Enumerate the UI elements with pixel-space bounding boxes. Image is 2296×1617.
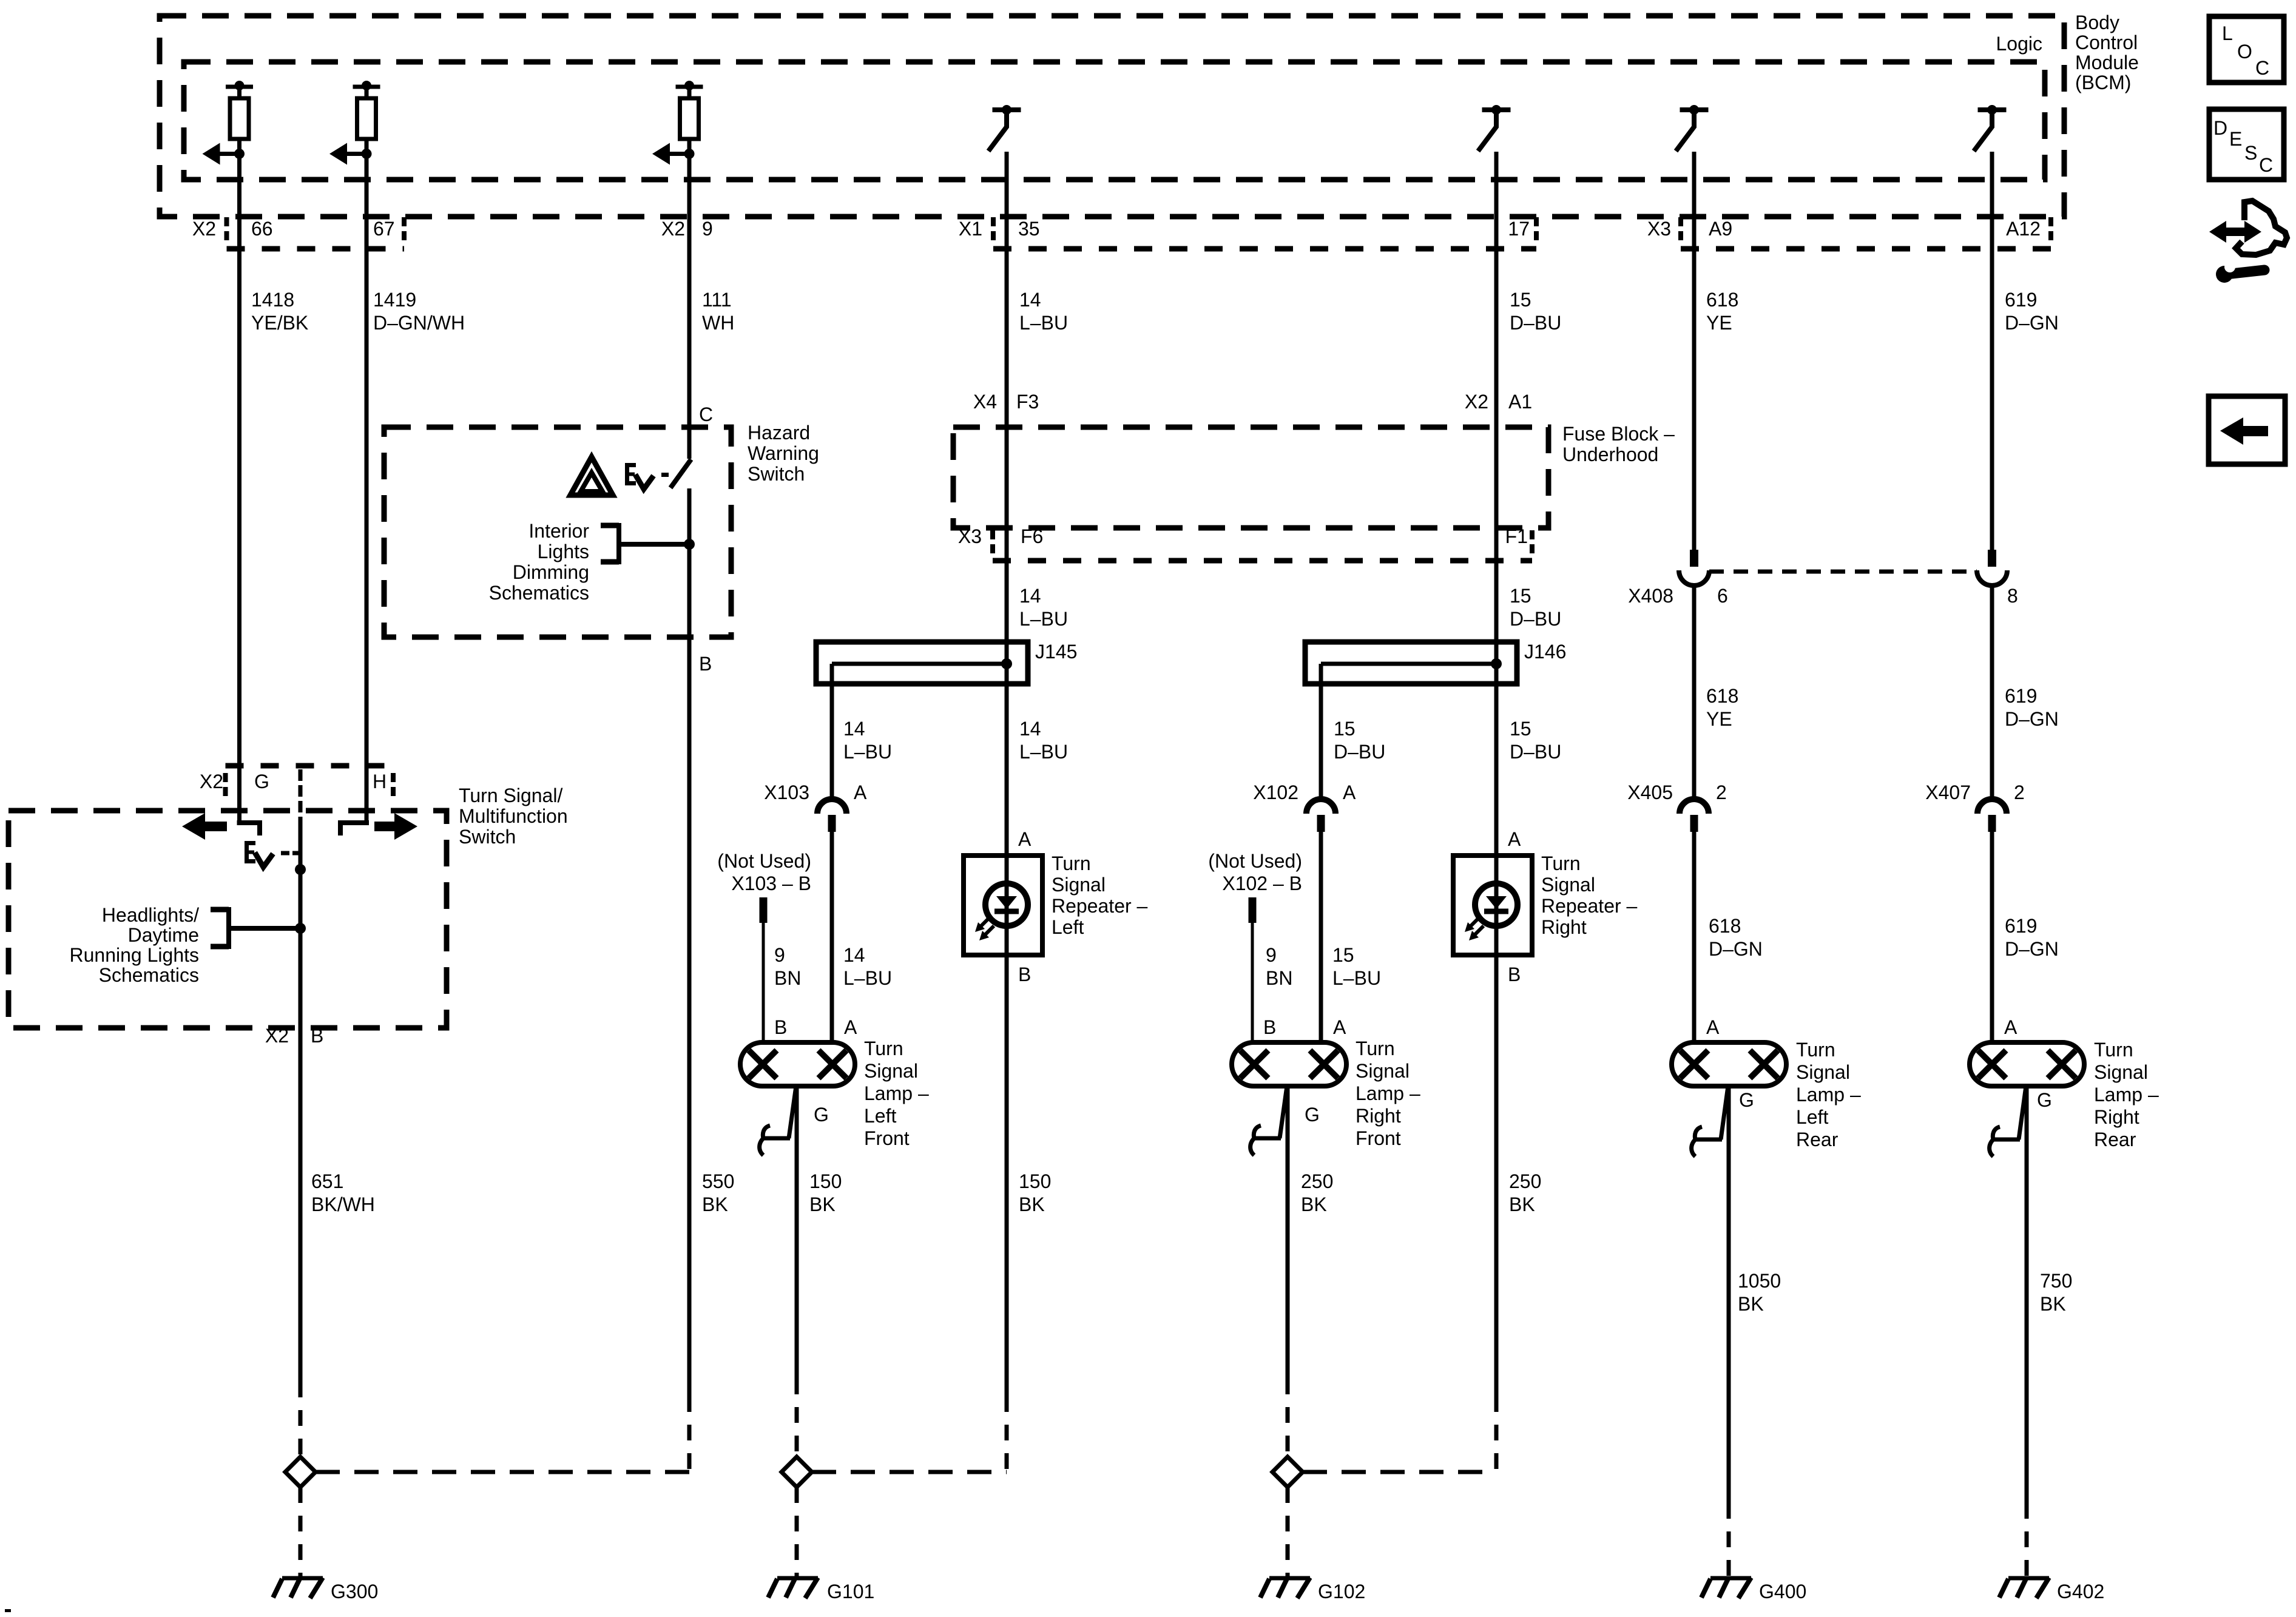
svg-text:8: 8 [2007, 585, 2018, 607]
svg-text:A: A [1018, 828, 1032, 850]
svg-text:Repeater –: Repeater – [1052, 895, 1148, 917]
svg-text:550: 550 [702, 1170, 734, 1192]
svg-text:6: 6 [1717, 585, 1728, 607]
svg-text:750: 750 [2040, 1270, 2072, 1292]
svg-text:D–GN: D–GN [2005, 708, 2059, 730]
svg-text:Lamp –: Lamp – [1356, 1082, 1420, 1104]
svg-text:BK: BK [1301, 1193, 1327, 1215]
svg-text:B: B [311, 1025, 323, 1047]
svg-text:S: S [2244, 142, 2257, 164]
svg-text:2: 2 [1716, 781, 1727, 803]
svg-text:Lamp –: Lamp – [2094, 1084, 2159, 1106]
svg-text:150: 150 [809, 1170, 842, 1192]
svg-text:A: A [844, 1016, 857, 1038]
svg-text:X103: X103 [764, 781, 809, 803]
svg-text:D: D [2213, 117, 2227, 139]
svg-text:X2: X2 [265, 1025, 289, 1047]
svg-text:Front: Front [864, 1127, 910, 1149]
svg-text:D–GN/WH: D–GN/WH [373, 312, 465, 334]
svg-text:B: B [1263, 1016, 1276, 1038]
svg-text:Signal: Signal [1541, 874, 1595, 896]
svg-text:15: 15 [1334, 718, 1356, 740]
svg-text:X102 – B: X102 – B [1222, 873, 1302, 894]
svg-text:X103 – B: X103 – B [731, 873, 811, 894]
svg-text:BN: BN [774, 967, 801, 989]
svg-text:D–BU: D–BU [1510, 608, 1561, 630]
svg-text:Left: Left [1796, 1106, 1828, 1128]
svg-text:Warning: Warning [748, 442, 819, 464]
svg-text:35: 35 [1018, 218, 1040, 240]
svg-text:D–BU: D–BU [1510, 741, 1561, 763]
svg-text:1050: 1050 [1738, 1270, 1781, 1292]
svg-text:618: 618 [1706, 289, 1738, 311]
svg-text:15: 15 [1510, 585, 1531, 607]
svg-text:D–GN: D–GN [2005, 938, 2059, 960]
svg-text:A: A [854, 781, 867, 803]
svg-text:Repeater –: Repeater – [1541, 895, 1638, 917]
svg-text:15: 15 [1510, 718, 1531, 740]
svg-text:Schematics: Schematics [99, 964, 199, 986]
svg-text:BK: BK [2040, 1293, 2066, 1315]
svg-text:Turn: Turn [1356, 1038, 1395, 1059]
svg-text:C: C [699, 403, 713, 425]
svg-text:(Not Used): (Not Used) [717, 850, 811, 872]
svg-text:G402: G402 [2057, 1581, 2104, 1602]
svg-text:YE: YE [1706, 708, 1732, 730]
svg-text:Left: Left [864, 1105, 896, 1127]
svg-text:BK: BK [1738, 1293, 1764, 1315]
svg-text:618: 618 [1706, 685, 1738, 707]
svg-text:A: A [1508, 828, 1521, 850]
svg-text:L–BU: L–BU [1019, 312, 1068, 334]
svg-text:X407: X407 [1925, 781, 1971, 803]
svg-text:X2: X2 [661, 218, 685, 240]
svg-text:G300: G300 [331, 1581, 378, 1602]
svg-text:1419: 1419 [373, 289, 416, 311]
svg-text:618: 618 [1709, 915, 1741, 937]
svg-text:BK: BK [1509, 1193, 1535, 1215]
svg-text:619: 619 [2005, 685, 2037, 707]
svg-text:G: G [1305, 1104, 1320, 1126]
svg-text:Interior: Interior [528, 520, 589, 542]
svg-text:G: G [1739, 1089, 1754, 1111]
svg-text:A: A [2004, 1016, 2017, 1038]
svg-text:A: A [1333, 1016, 1346, 1038]
svg-text:J145: J145 [1035, 641, 1077, 663]
svg-text:Body: Body [2075, 12, 2119, 33]
svg-text:F1: F1 [1505, 525, 1528, 547]
svg-text:15: 15 [1332, 944, 1354, 966]
svg-text:2: 2 [2014, 781, 2025, 803]
svg-text:619: 619 [2005, 915, 2037, 937]
svg-text:9: 9 [1266, 944, 1277, 966]
svg-text:A9: A9 [1709, 218, 1732, 240]
svg-text:Turn: Turn [864, 1038, 903, 1059]
svg-text:Right: Right [1541, 916, 1587, 938]
svg-text:Headlights/: Headlights/ [102, 904, 199, 926]
svg-text:Rear: Rear [1796, 1129, 1838, 1150]
svg-text:X2: X2 [192, 218, 216, 240]
svg-text:B: B [774, 1016, 787, 1038]
svg-text:BN: BN [1266, 967, 1292, 989]
svg-text:Turn: Turn [1796, 1039, 1835, 1061]
svg-text:X1: X1 [959, 218, 982, 240]
svg-text:L: L [2222, 22, 2233, 44]
svg-text:14: 14 [1019, 585, 1041, 607]
svg-text:Switch: Switch [748, 463, 805, 485]
svg-text:14: 14 [1019, 718, 1041, 740]
svg-text:Hazard: Hazard [748, 422, 810, 444]
svg-text:BK: BK [809, 1193, 836, 1215]
svg-text:X405: X405 [1627, 781, 1673, 803]
svg-text:Right: Right [1356, 1105, 1401, 1127]
svg-text:619: 619 [2005, 289, 2037, 311]
svg-text:Signal: Signal [864, 1060, 918, 1082]
svg-text:Signal: Signal [1052, 874, 1106, 896]
svg-text:D–BU: D–BU [1334, 741, 1385, 763]
svg-text:X4: X4 [973, 391, 997, 413]
svg-text:X3: X3 [1647, 218, 1671, 240]
svg-text:(BCM): (BCM) [2075, 72, 2131, 93]
svg-text:B: B [1018, 964, 1031, 985]
svg-text:Switch: Switch [459, 826, 516, 848]
svg-text:WH: WH [702, 312, 734, 334]
svg-text:YE: YE [1706, 312, 1732, 334]
svg-text:250: 250 [1301, 1170, 1333, 1192]
svg-text:D–GN: D–GN [1709, 938, 1763, 960]
svg-text:Front: Front [1356, 1127, 1401, 1149]
svg-text:9: 9 [774, 944, 785, 966]
svg-text:1418: 1418 [251, 289, 294, 311]
svg-text:F3: F3 [1016, 391, 1039, 413]
svg-text:17: 17 [1508, 218, 1530, 240]
svg-text:A1: A1 [1508, 391, 1532, 413]
svg-text:Turn: Turn [1541, 852, 1581, 874]
svg-text:Module: Module [2075, 52, 2139, 73]
svg-text:Turn Signal/: Turn Signal/ [459, 785, 562, 806]
svg-text:Left: Left [1052, 916, 1084, 938]
svg-text:J146: J146 [1524, 641, 1566, 663]
svg-text:250: 250 [1509, 1170, 1541, 1192]
svg-text:L–BU: L–BU [843, 967, 892, 989]
svg-text:X102: X102 [1253, 781, 1298, 803]
svg-text:BK/WH: BK/WH [311, 1193, 375, 1215]
svg-text:L–BU: L–BU [1019, 608, 1068, 630]
svg-text:150: 150 [1019, 1170, 1051, 1192]
svg-text:Multifunction: Multifunction [459, 805, 568, 827]
svg-text:BK: BK [702, 1193, 728, 1215]
svg-text:A: A [1343, 781, 1356, 803]
svg-text:A: A [1706, 1016, 1720, 1038]
svg-text:L–BU: L–BU [1019, 741, 1068, 763]
svg-text:BK: BK [1019, 1193, 1045, 1215]
svg-text:L–BU: L–BU [843, 741, 892, 763]
svg-text:G400: G400 [1759, 1581, 1806, 1602]
svg-text:651: 651 [311, 1170, 343, 1192]
svg-text:C: C [2259, 154, 2273, 176]
svg-text:Lights: Lights [538, 541, 589, 562]
svg-text:O: O [2237, 41, 2252, 62]
svg-text:G: G [254, 771, 269, 792]
svg-text:66: 66 [251, 218, 273, 240]
svg-text:Right: Right [2094, 1106, 2139, 1128]
svg-text:(Not Used): (Not Used) [1208, 850, 1302, 872]
svg-text:Turn: Turn [2094, 1039, 2133, 1061]
svg-text:L–BU: L–BU [1332, 967, 1381, 989]
svg-text:Underhood: Underhood [1562, 444, 1658, 465]
svg-text:E: E [2229, 128, 2242, 150]
svg-text:Turn: Turn [1052, 852, 1091, 874]
svg-text:Signal: Signal [1796, 1061, 1850, 1083]
svg-text:14: 14 [843, 718, 865, 740]
svg-text:14: 14 [1019, 289, 1041, 311]
svg-text:14: 14 [843, 944, 865, 966]
svg-text:G101: G101 [827, 1581, 874, 1602]
svg-text:9: 9 [702, 218, 713, 240]
svg-text:A12: A12 [2006, 218, 2041, 240]
svg-text:Signal: Signal [2094, 1061, 2148, 1083]
svg-text:G102: G102 [1318, 1581, 1365, 1602]
svg-text:Lamp –: Lamp – [1796, 1084, 1861, 1106]
svg-text:Signal: Signal [1356, 1060, 1410, 1082]
svg-text:C: C [2255, 57, 2269, 79]
svg-text:Rear: Rear [2094, 1129, 2136, 1150]
svg-text:X408: X408 [1628, 585, 1673, 607]
svg-text:H: H [373, 771, 387, 792]
svg-text:G: G [814, 1104, 829, 1126]
svg-text:D–GN: D–GN [2005, 312, 2059, 334]
svg-text:X2: X2 [1465, 391, 1488, 413]
svg-text:Dimming: Dimming [513, 561, 589, 583]
svg-text:Logic: Logic [1996, 33, 2043, 55]
svg-text:Daytime: Daytime [128, 924, 199, 946]
svg-text:Running Lights: Running Lights [70, 944, 199, 966]
svg-text:YE/BK: YE/BK [251, 312, 308, 334]
svg-text:F6: F6 [1021, 525, 1043, 547]
svg-text:B: B [699, 653, 712, 675]
svg-text:Lamp –: Lamp – [864, 1082, 929, 1104]
svg-text:Control: Control [2075, 32, 2138, 53]
svg-text:Schematics: Schematics [489, 582, 589, 604]
svg-text:67: 67 [373, 218, 395, 240]
svg-text:D–BU: D–BU [1510, 312, 1561, 334]
svg-text:B: B [1508, 964, 1521, 985]
svg-text:X3: X3 [958, 525, 982, 547]
svg-text:X2: X2 [200, 771, 223, 792]
svg-text:G: G [2037, 1089, 2052, 1111]
svg-text:15: 15 [1510, 289, 1531, 311]
svg-text:111: 111 [702, 289, 732, 311]
svg-text:Fuse Block –: Fuse Block – [1562, 423, 1675, 445]
